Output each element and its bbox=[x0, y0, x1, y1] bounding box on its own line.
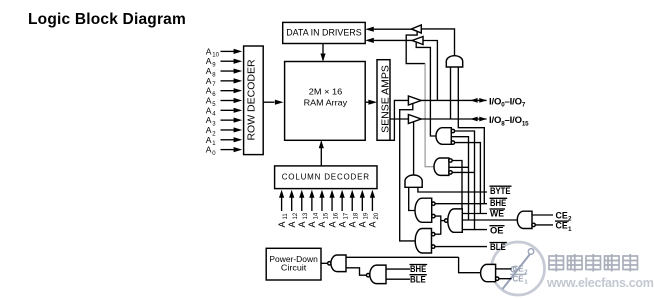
svg-text:11: 11 bbox=[283, 213, 289, 220]
svg-text:1: 1 bbox=[525, 280, 528, 286]
svg-text:ROW DECODER: ROW DECODER bbox=[245, 59, 257, 141]
svg-text:18: 18 bbox=[354, 212, 360, 219]
svg-text:BYTE: BYTE bbox=[490, 186, 511, 196]
svg-text:A: A bbox=[206, 56, 212, 66]
svg-text:DATA IN DRIVERS: DATA IN DRIVERS bbox=[286, 26, 362, 37]
svg-text:A: A bbox=[297, 221, 307, 227]
svg-text:A: A bbox=[287, 221, 297, 227]
svg-text:BHE: BHE bbox=[490, 198, 506, 208]
svg-text:www.elecfans.com: www.elecfans.com bbox=[546, 276, 654, 290]
svg-text:A: A bbox=[206, 105, 212, 115]
svg-text:A: A bbox=[317, 221, 327, 227]
svg-text:A: A bbox=[206, 66, 212, 76]
svg-text:WE: WE bbox=[490, 209, 504, 219]
svg-text:A: A bbox=[206, 115, 212, 125]
svg-text:A: A bbox=[277, 221, 287, 227]
svg-text:15: 15 bbox=[323, 212, 329, 219]
svg-text:A: A bbox=[206, 125, 212, 135]
svg-text:12: 12 bbox=[293, 212, 299, 219]
svg-text:A: A bbox=[368, 221, 378, 227]
svg-text:CE: CE bbox=[513, 275, 525, 284]
svg-text:2M × 16: 2M × 16 bbox=[309, 86, 343, 96]
svg-text:A: A bbox=[206, 96, 212, 106]
svg-text:BHE: BHE bbox=[410, 264, 426, 274]
svg-text:CE: CE bbox=[513, 265, 525, 274]
svg-text:SENSE AMPS: SENSE AMPS bbox=[379, 65, 391, 133]
svg-text:17: 17 bbox=[344, 212, 350, 219]
svg-text:A: A bbox=[327, 221, 337, 227]
svg-text:Power-Down: Power-Down bbox=[269, 255, 317, 264]
svg-text:RAM Array: RAM Array bbox=[304, 97, 348, 107]
svg-text:10: 10 bbox=[212, 53, 219, 59]
svg-text:A: A bbox=[206, 86, 212, 96]
svg-text:A: A bbox=[206, 145, 212, 155]
svg-text:BLE: BLE bbox=[490, 242, 506, 252]
svg-text:A: A bbox=[206, 46, 212, 56]
svg-text:CE: CE bbox=[556, 211, 568, 221]
svg-text:Logic Block Diagram: Logic Block Diagram bbox=[28, 11, 186, 28]
svg-text:19: 19 bbox=[364, 212, 370, 219]
svg-text:16: 16 bbox=[333, 212, 339, 219]
svg-text:CE: CE bbox=[556, 221, 568, 231]
svg-text:I/O0–I/O7: I/O0–I/O7 bbox=[489, 96, 526, 108]
svg-text:20: 20 bbox=[374, 212, 380, 219]
svg-text:A: A bbox=[206, 76, 212, 86]
svg-text:14: 14 bbox=[313, 212, 319, 219]
svg-text:Circuit: Circuit bbox=[281, 264, 307, 273]
svg-text:COLUMN DECODER: COLUMN DECODER bbox=[282, 172, 370, 181]
svg-text:A: A bbox=[347, 221, 357, 227]
svg-text:A: A bbox=[337, 221, 347, 227]
svg-text:A: A bbox=[206, 135, 212, 145]
svg-text:OE: OE bbox=[490, 225, 504, 235]
svg-text:BLE: BLE bbox=[410, 274, 426, 284]
svg-text:A: A bbox=[358, 221, 368, 227]
svg-text:13: 13 bbox=[303, 212, 309, 219]
svg-text:A: A bbox=[307, 221, 317, 227]
